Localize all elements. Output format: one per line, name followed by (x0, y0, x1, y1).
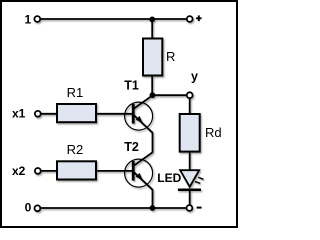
svg-text:T1: T1 (124, 79, 139, 93)
wire node to y (152, 94, 186, 96)
wire Rd to LED (189, 152, 191, 171)
LED light ray 1 (198, 177, 203, 179)
node junction bottom (150, 205, 156, 211)
svg-text:0: 0 (25, 201, 32, 215)
wire LED to minus (189, 190, 191, 205)
svg-text:x2: x2 (12, 164, 26, 178)
wire x2 to R2 (41, 170, 58, 172)
wire top rail (41, 18, 187, 20)
svg-text:Rd: Rd (205, 125, 222, 140)
wire x1 to R1 (41, 113, 58, 115)
resistor Rd (180, 114, 200, 152)
label - (197, 207, 202, 209)
terminal 1 (34, 16, 40, 22)
LED D1 (180, 170, 199, 187)
LED light ray 2 (195, 182, 200, 184)
svg-text:y: y (191, 70, 198, 84)
wire T1 emitter to T2 collector (152, 132, 154, 152)
terminal 0 (35, 205, 41, 211)
wire R2 to T2 base (96, 170, 133, 172)
node junction top (149, 17, 155, 23)
resistor R2 (57, 161, 96, 179)
svg-text:T2: T2 (124, 140, 139, 154)
node minus terminal (187, 205, 193, 211)
wire top dot to R (151, 19, 153, 39)
node y terminal (187, 92, 193, 98)
terminal x1 (35, 111, 41, 117)
wire y to Rd (189, 98, 191, 115)
svg-text:x1: x1 (12, 107, 26, 121)
transistor Q T1 (125, 96, 153, 133)
label + (196, 15, 202, 21)
node + terminal (187, 16, 193, 22)
wire bottom rail (41, 207, 186, 209)
svg-text:R: R (166, 49, 175, 64)
terminal x2 (35, 168, 41, 174)
transistor Q T2 (125, 152, 153, 189)
resistor R1 (57, 104, 96, 122)
LED cathode bar (178, 189, 201, 192)
wire R1 to T1 base (96, 113, 133, 115)
svg-text:R1: R1 (67, 85, 84, 100)
svg-text:1: 1 (25, 13, 32, 27)
node junction collector T1 (150, 92, 156, 98)
svg-text:LED: LED (157, 171, 181, 185)
svg-text:R2: R2 (67, 142, 84, 157)
wire R to node (151, 76, 153, 96)
border frame (1, 1, 237, 227)
wire T2 emitter to bottom rail (152, 189, 154, 208)
resistor R (143, 39, 162, 76)
